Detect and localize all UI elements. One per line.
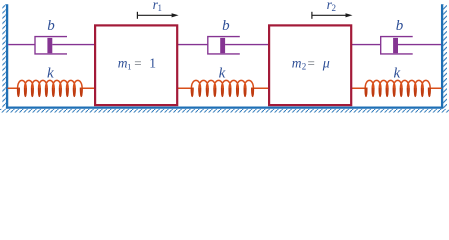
- arrow r1 displacement: [136, 12, 138, 19]
- svg-text:m: m: [292, 56, 302, 71]
- svg-text:1: 1: [158, 3, 163, 13]
- mass block m2: [269, 25, 351, 105]
- spring k3 (m2 to right wall): [352, 80, 442, 96]
- svg-text:2: 2: [302, 61, 307, 71]
- svg-text:2: 2: [332, 3, 337, 13]
- damper cylinder: [35, 37, 67, 54]
- left wall: [6, 4, 8, 108]
- ground hatching below floor: [0, 109, 449, 113]
- wire damper piston rod: [52, 44, 95, 46]
- svg-text:k: k: [394, 66, 401, 82]
- floor: [6, 107, 443, 109]
- svg-text:k: k: [47, 66, 54, 82]
- wire damper left lead: [352, 44, 381, 46]
- wire damper left lead: [8, 44, 35, 46]
- wire damper piston rod: [398, 44, 441, 46]
- damper piston: [220, 38, 225, 53]
- svg-text:m: m: [118, 56, 128, 71]
- spring k1 (wall to m1): [8, 80, 95, 96]
- wire damper left lead: [178, 44, 208, 46]
- svg-text:=: =: [134, 56, 141, 71]
- svg-text:1: 1: [127, 61, 131, 71]
- svg-text:b: b: [222, 18, 230, 34]
- left wall hatching: [2, 4, 6, 108]
- wire damper piston rod: [225, 44, 269, 46]
- damper piston: [393, 38, 398, 53]
- svg-text:b: b: [396, 18, 404, 34]
- svg-text:=: =: [308, 56, 315, 71]
- right wall hatching: [443, 4, 447, 108]
- damper cylinder: [208, 37, 240, 54]
- damper cylinder: [381, 37, 413, 54]
- svg-text:k: k: [219, 66, 226, 82]
- right wall: [441, 4, 443, 108]
- svg-text:b: b: [47, 18, 55, 34]
- svg-text:μ: μ: [322, 57, 330, 72]
- spring k2 (m1 to m2): [178, 80, 270, 96]
- svg-text:1: 1: [149, 56, 156, 71]
- damper piston: [47, 38, 52, 53]
- mass block m1: [95, 25, 177, 105]
- arrow r2 displacement: [311, 12, 313, 19]
